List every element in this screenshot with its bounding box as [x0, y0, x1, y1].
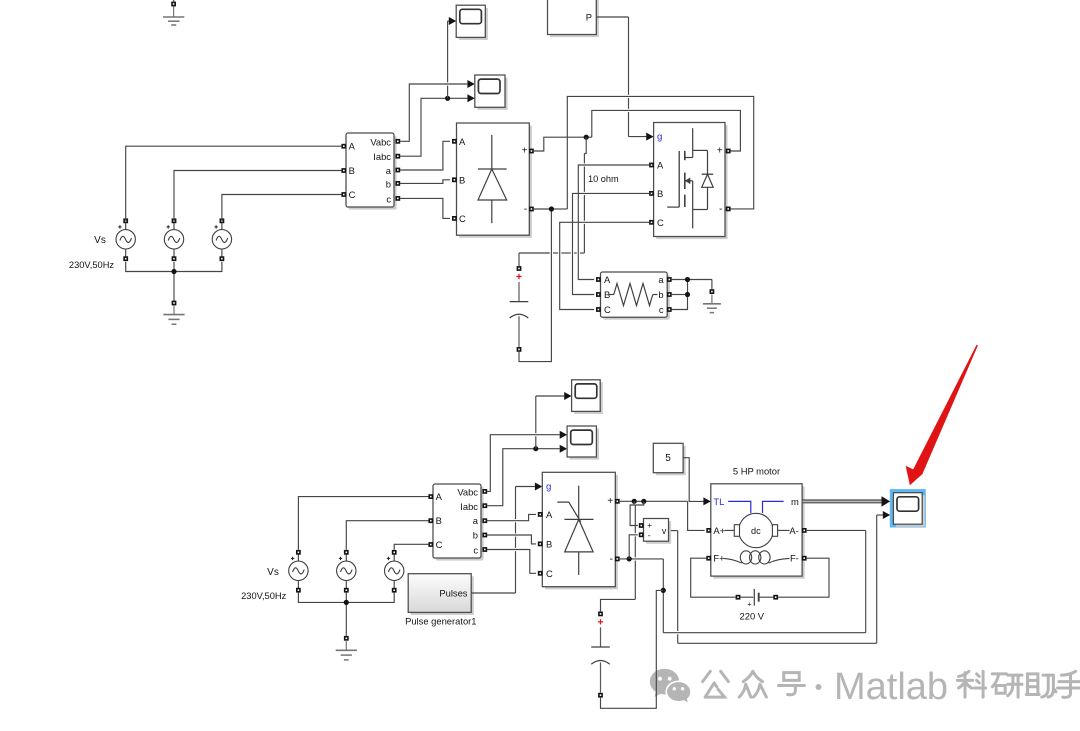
svg-text:g: g [657, 132, 662, 143]
junction dc- voltmeter tap [627, 556, 632, 561]
svg-text:+: + [717, 146, 723, 157]
arrow into scope3 [564, 392, 571, 400]
arrow into scope5 input1 [882, 496, 891, 506]
svg-text:B: B [657, 188, 663, 199]
rectifier output ports [529, 149, 534, 212]
svg-text:a: a [386, 165, 392, 176]
svg-text:C: C [546, 568, 553, 579]
thyristor bridge input ports [538, 512, 543, 576]
label 5 HP motor [733, 466, 780, 477]
svg-text:m: m [791, 496, 799, 507]
wire snubber bottom return [601, 590, 664, 708]
watermark char 助 [1026, 674, 1056, 697]
thyristor symbol inside bridge [557, 486, 593, 575]
label 10 ohm annotation [588, 174, 619, 184]
voltage measurement block [644, 519, 672, 544]
svg-text:Iabc: Iabc [460, 501, 478, 512]
resistor symbol inside load block [609, 284, 657, 306]
junction neutral (bottom) [344, 600, 349, 605]
arrow into scope2 input1 [467, 80, 474, 88]
voltmeter output wire to scope5 (hops A- return) [671, 515, 883, 643]
wire 5 to motor TL [683, 458, 703, 502]
svg-text:5 HP motor: 5 HP motor [733, 466, 780, 477]
PWM generator block (top, cropped) [548, 0, 599, 37]
scope block Scope2 (top) [475, 75, 508, 110]
svg-text:Matlab: Matlab [834, 666, 948, 708]
three-phase V-I measurement block (bottom) [433, 484, 484, 561]
svg-text:C: C [604, 304, 611, 315]
junction load b [685, 292, 690, 297]
arrow into scope1 [449, 17, 456, 25]
label 220 V [740, 610, 765, 621]
wire tap to snubber capacitor (hops - wire and - input) [601, 501, 644, 611]
svg-text:220 V: 220 V [740, 610, 765, 621]
wire c to thyristor bridge C [487, 550, 536, 574]
wire battery + to F+ [691, 558, 736, 597]
svg-text:C: C [349, 189, 356, 200]
red annotation arrow [906, 345, 978, 486]
junction dc+ snubber tap [641, 499, 646, 504]
label Vs (top sources) [94, 235, 106, 246]
watermark char 科 [957, 671, 985, 697]
field winding coil inside motor [724, 551, 790, 564]
watermark char 公 [703, 671, 729, 697]
ground symbol (top sources) [163, 305, 184, 324]
wire P output to chopper g (hops 2 wires) [596, 17, 646, 137]
watermark char 手 [1058, 671, 1080, 697]
svg-text:a: a [473, 515, 479, 526]
svg-text:Vs: Vs [94, 235, 106, 246]
watermark char 号 [779, 673, 805, 695]
label 230V,50Hz (top sources) [69, 260, 114, 270]
three-phase V-I measurement block (top) [346, 133, 397, 210]
svg-text:c: c [473, 545, 478, 556]
three-phase series RLC load block (10 ohm) [601, 272, 670, 320]
ground port (load) [710, 289, 715, 294]
wire chopper C to load C [560, 222, 650, 309]
svg-text:Pulses: Pulses [439, 587, 467, 598]
svg-text:C: C [657, 217, 664, 228]
battery 220V [736, 589, 779, 609]
svg-text:c: c [659, 304, 664, 315]
wire Pulses to bridge g (hops a,b,c wires) [471, 487, 535, 594]
junction dc+ (top) [584, 135, 589, 140]
watermark text Matlab [834, 666, 948, 708]
svg-text:A: A [349, 141, 356, 152]
svg-text:b: b [473, 530, 478, 541]
wire battery - to F- [778, 558, 829, 597]
svg-text:dc: dc [751, 526, 761, 536]
svg-text:5: 5 [665, 453, 671, 464]
TL torque line inside motor (blue) [728, 501, 783, 513]
wire bridge - to A- return [620, 530, 866, 632]
svg-text:P: P [586, 12, 592, 23]
ground symbol (load) [703, 295, 721, 313]
watermark char 研 [992, 674, 1022, 697]
junction snubber return tap [661, 588, 666, 593]
dc machine circle symbol [725, 513, 790, 547]
dc motor block [711, 484, 805, 579]
wire a to thyristor bridge A [487, 514, 536, 520]
svg-text:Iabc: Iabc [373, 151, 391, 162]
junction load a [685, 277, 690, 282]
ac voltage source phase C (top) [212, 218, 231, 261]
wire bridge + to motor A+ [620, 501, 705, 530]
wire neutral bus (top sources) [126, 262, 222, 301]
wire rectifier - to chopper - [534, 96, 754, 209]
IGBT chopper block (top) [654, 123, 728, 240]
junction on Iabc wire (bottom) [533, 446, 538, 451]
wire tap to voltmeter + [630, 501, 638, 525]
wire b to rectifier B (top) [400, 180, 450, 184]
wire Vabc to scope4 input1 (bottom) [487, 435, 560, 492]
svg-text:+: + [647, 521, 652, 530]
svg-text:A: A [604, 274, 611, 285]
wire source C to measurement C (top) [222, 195, 342, 221]
svg-text:v: v [662, 526, 667, 536]
load output ports [667, 277, 672, 312]
motor ports [706, 528, 806, 561]
svg-text:+: + [522, 146, 528, 157]
load input ports [596, 277, 601, 312]
svg-text:A: A [459, 136, 466, 147]
wire source A to measurement A (bottom) [298, 497, 428, 550]
wire junction up to scope3 (hops over Vabc wire) [536, 396, 564, 449]
svg-text:Pulse generator1: Pulse generator1 [405, 615, 476, 626]
svg-text:TL: TL [713, 496, 724, 507]
label Pulse generator1 [405, 615, 476, 626]
pulse generator block [408, 574, 474, 615]
wire dc+ down to capacitor (hops A,B,C wires) [519, 137, 586, 266]
watermark middle dot [816, 684, 822, 690]
diode symbol inside rectifier [478, 135, 507, 223]
watermark char 众 [739, 671, 766, 697]
chopper output ports [726, 149, 731, 212]
wire motor m to scope5 (bus) [803, 499, 884, 503]
dc link capacitor (top) [510, 266, 529, 352]
scope block Scope4 (bottom) [567, 426, 599, 460]
svg-text:b: b [386, 179, 391, 190]
svg-text:230V,50Hz: 230V,50Hz [69, 260, 114, 270]
arrow into scope5 input2 [883, 511, 890, 519]
ground port (bottom sources) [344, 636, 349, 641]
voltmeter input ports [639, 523, 644, 537]
svg-text:A: A [657, 160, 664, 171]
junction dc+ voltmeter tap [632, 499, 637, 504]
junction dc- (top) [549, 206, 554, 211]
snubber capacitor (bottom) [591, 612, 610, 698]
svg-text:+: + [607, 496, 613, 507]
wire chopper B to load B [573, 193, 650, 294]
ac voltage source phase C (bottom) [385, 550, 404, 593]
svg-text:A-: A- [789, 525, 798, 536]
constant block 5 [653, 443, 685, 475]
wire Iabc to scope4 input2 (bottom) [487, 449, 560, 506]
svg-text:B: B [436, 515, 442, 526]
thyristor bridge output ports [615, 499, 620, 561]
svg-text:F-: F- [790, 553, 799, 564]
svg-text:-: - [719, 203, 723, 215]
svg-text:b: b [658, 289, 663, 300]
diode rectifier bridge block (top) [457, 123, 532, 238]
arrow into scope4 input2 [560, 445, 567, 453]
wire Vabc to scope2 input1 (top) [400, 84, 467, 141]
ground symbol (bottom sources) [336, 641, 357, 660]
svg-text:C: C [459, 213, 466, 224]
svg-text:g: g [546, 481, 551, 492]
wire neutral bus (bottom sources) [298, 592, 394, 636]
measurement output ports (top) [395, 139, 400, 201]
wire source B to measurement B (top) [174, 171, 341, 221]
svg-text:a: a [658, 274, 664, 285]
junction neutral (top) [171, 269, 176, 274]
arrow into scope2 input2 [467, 94, 474, 102]
svg-text:A: A [546, 509, 553, 520]
scope block Scope5 (selected) [892, 491, 925, 527]
svg-text:Vabc: Vabc [457, 486, 478, 497]
wire source B to measurement B (bottom) [346, 521, 428, 550]
scope block Scope1 (top) [456, 5, 488, 40]
wire a to rectifier A (top) [400, 141, 450, 170]
wire chopper A to load A [578, 165, 649, 280]
wire rectifier + to chopper + (dc link) [534, 110, 741, 151]
ground symbol (floating, top-left) [163, 0, 184, 25]
wire b to thyristor bridge B [487, 535, 536, 544]
scope block Scope3 (bottom) [572, 380, 603, 414]
svg-text:Vs: Vs [267, 567, 279, 578]
measurement input ports (bottom) [428, 494, 433, 547]
arrow into scope4 input1 [560, 431, 567, 439]
svg-text:c: c [386, 194, 391, 205]
watermark wechat icon [650, 669, 691, 704]
wire source A to measurement A (top) [126, 146, 342, 221]
ac voltage source phase A (bottom) [289, 550, 308, 593]
svg-text:B: B [349, 165, 355, 176]
svg-text:-: - [524, 203, 528, 215]
thyristor bridge block (bottom) [542, 472, 618, 589]
svg-text:A+: A+ [713, 525, 725, 536]
svg-text:+: + [747, 600, 751, 609]
arrow into chopper g [646, 133, 653, 141]
wire junction up to scope1 (hops over Vabc wire) [448, 21, 449, 98]
wire load outputs shorted to ground [672, 280, 712, 310]
junction on Iabc wire [445, 96, 450, 101]
IGBT and diode symbol inside chopper [667, 128, 713, 228]
ground port (top sources) [172, 301, 177, 306]
arrow into motor TL [703, 497, 710, 505]
ac voltage source phase B (top) [164, 218, 183, 261]
svg-text:C: C [436, 539, 443, 550]
svg-text:-: - [610, 553, 614, 565]
wire Iabc to scope2 input2 (top) [400, 98, 467, 156]
arrow into thyristor bridge g [535, 483, 542, 491]
wire source C to measurement C (bottom) [394, 544, 428, 550]
wire capacitor bottom to dc- junction [519, 212, 551, 362]
svg-text:230V,50Hz: 230V,50Hz [241, 591, 286, 601]
measurement output ports (bottom) [482, 489, 487, 552]
svg-text:10 ohm: 10 ohm [588, 174, 619, 184]
measurement input ports (top) [341, 144, 346, 197]
wire c to rectifier C (top) [400, 198, 450, 218]
wire tap to voltmeter - [629, 535, 638, 559]
svg-text:F+: F+ [713, 553, 725, 564]
rectifier input ports [452, 139, 457, 221]
label 230V,50Hz (bottom sources) [241, 591, 286, 601]
svg-text:B: B [459, 174, 465, 185]
ac voltage source Vs phase A (top) [116, 218, 135, 261]
label Vs (bottom sources) [267, 567, 279, 578]
svg-text:A: A [436, 491, 443, 502]
ac voltage source phase B (bottom) [337, 550, 356, 593]
svg-text:Vabc: Vabc [370, 136, 391, 147]
chopper input ports [649, 163, 654, 225]
svg-text:B: B [546, 538, 552, 549]
svg-text:-: - [648, 530, 651, 540]
